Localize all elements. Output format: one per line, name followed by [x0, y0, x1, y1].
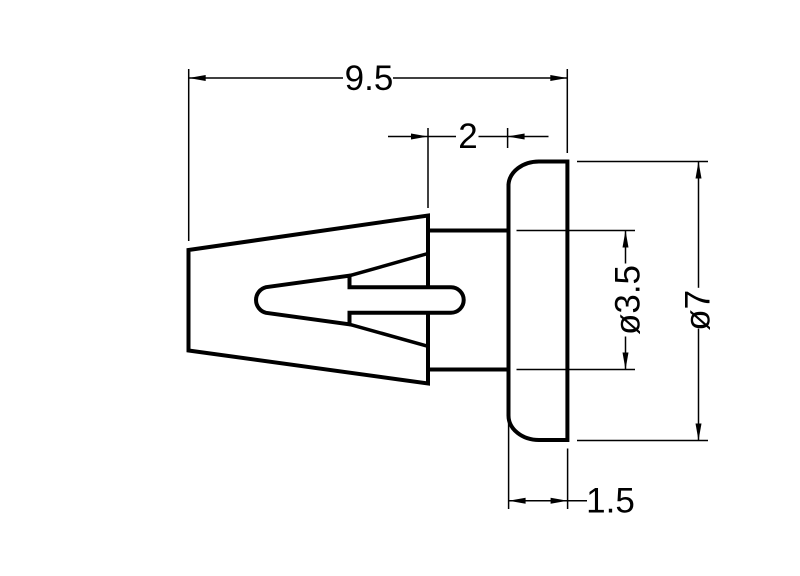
svg-text:2: 2 — [458, 117, 477, 156]
dim 9.5 right arrowhead — [550, 75, 567, 81]
dim 1.5 left arrowhead — [509, 498, 526, 504]
dim 7 line lower segment — [698, 329, 700, 441]
cylinder neck bottom edge — [428, 368, 509, 372]
dim 1.5 right extension line — [567, 449, 569, 510]
lower leg slit line — [350, 324, 429, 346]
svg-text:9.5: 9.5 — [345, 59, 394, 98]
cylinder neck top edge — [428, 229, 509, 233]
dim 1.5 text leader stub — [568, 500, 587, 502]
dim 9.5 line left segment — [189, 77, 343, 79]
dim 2 outside left arrowhead — [411, 134, 428, 140]
dim 2 outside left arrow tail — [388, 136, 428, 138]
dim 7 bottom extension line — [577, 440, 708, 442]
dim 3.5 line lower segment — [625, 337, 627, 370]
dim 2 outside right arrow tail — [508, 136, 549, 138]
dim 9.5 left arrowhead — [189, 75, 206, 81]
dim 3.5 bottom extension line — [517, 369, 636, 371]
dim 9.5 left extension line — [188, 69, 190, 241]
flange cap outline — [509, 161, 568, 440]
svg-text:1.5: 1.5 — [586, 482, 635, 521]
rivet tapered body outline — [189, 216, 429, 384]
dim 9.5 line right segment — [393, 77, 567, 79]
dim 3.5 line upper segment — [625, 231, 627, 264]
dim 7 bottom arrowhead — [696, 424, 702, 441]
expander pin arrow outline — [256, 276, 464, 325]
svg-text:ø7: ø7 — [678, 290, 717, 331]
dim 1.5 left extension line — [508, 421, 510, 509]
svg-text:ø3.5: ø3.5 — [608, 265, 647, 335]
dim 2 right extension line — [507, 128, 509, 148]
dim 3.5 bottom arrowhead — [623, 353, 629, 370]
dim 7 line upper segment — [698, 162, 700, 288]
dim 2 line left segment — [428, 136, 456, 138]
dim 7 top arrowhead — [696, 162, 702, 179]
dim 1.5 right arrowhead — [551, 498, 568, 504]
upper leg slit line — [350, 254, 429, 276]
dim 2 line right segment — [479, 136, 508, 138]
dim 7 top extension line — [577, 161, 708, 163]
dim 2 outside right arrowhead — [508, 134, 525, 140]
dim 2 left extension line — [427, 128, 429, 208]
dim 3.5 top extension line — [517, 230, 636, 232]
dim 3.5 top arrowhead — [623, 231, 629, 248]
dim 9.5 right extension line — [566, 69, 568, 153]
dim 1.5 line — [509, 500, 568, 502]
